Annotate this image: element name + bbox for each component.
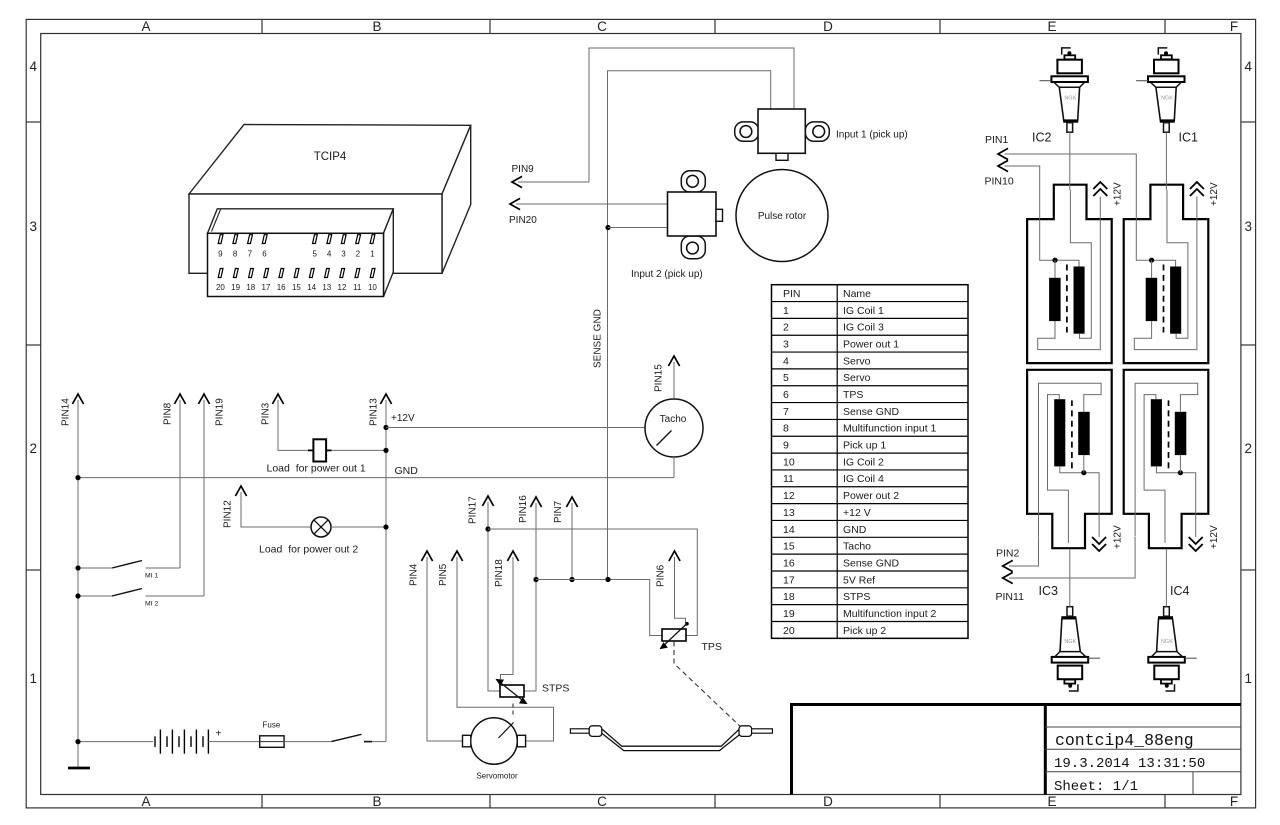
svg-text:7: 7 bbox=[783, 406, 789, 418]
node PIN17 bbox=[468, 496, 494, 524]
wire PIN14 to ground rail bbox=[77, 400, 79, 768]
svg-text:Pick up 1: Pick up 1 bbox=[843, 440, 886, 452]
svg-text:SENSE GND: SENSE GND bbox=[593, 309, 604, 368]
svg-text:Name: Name bbox=[843, 288, 871, 300]
svg-text:C: C bbox=[597, 19, 607, 34]
spark plug IC2 bbox=[1040, 48, 1088, 190]
node PIN9 bbox=[512, 164, 535, 188]
wire PIN7 down bbox=[571, 503, 573, 580]
wire tacho to GND rail bbox=[673, 457, 675, 478]
node junction MI1 left bbox=[75, 565, 80, 570]
ignition coil IC2 bbox=[1027, 185, 1112, 363]
svg-text:MI 1: MI 1 bbox=[145, 573, 158, 580]
svg-text:9: 9 bbox=[218, 250, 223, 259]
node PIN18 bbox=[494, 551, 519, 587]
svg-text:Load for power out 2: Load for power out 2 bbox=[259, 544, 358, 556]
power +12V feed IC4 bbox=[1189, 514, 1220, 551]
svg-text:Input 2 (pick up): Input 2 (pick up) bbox=[631, 269, 703, 280]
node PIN3 bbox=[261, 394, 284, 425]
power +12V feed IC1 bbox=[1190, 182, 1220, 206]
spark plug IC3 bbox=[1052, 549, 1100, 691]
svg-text:STPS: STPS bbox=[542, 683, 569, 695]
spark plug IC1 bbox=[1136, 48, 1184, 190]
wire PIN17 to STPS left bbox=[488, 502, 500, 691]
svg-text:C: C bbox=[597, 794, 607, 809]
potentiometer TPS bbox=[661, 622, 722, 653]
node PIN6 bbox=[656, 551, 681, 587]
svg-text:8: 8 bbox=[233, 250, 238, 259]
wire PIN10 to IC2 coil bbox=[1005, 166, 1040, 219]
svg-text:7: 7 bbox=[248, 250, 253, 259]
throttle linkage rod bbox=[570, 726, 772, 751]
svg-text:PIN11: PIN11 bbox=[996, 591, 1025, 603]
wire STPS linkage (dashed) bbox=[512, 704, 514, 718]
wire lamp to +12V rail bbox=[331, 526, 386, 528]
svg-text:PIN1: PIN1 bbox=[985, 134, 1009, 146]
svg-text:IC1: IC1 bbox=[1179, 131, 1199, 145]
ignition switch bbox=[331, 734, 372, 741]
svg-text:6: 6 bbox=[783, 389, 789, 401]
wire PIN9 to Input 1 bbox=[518, 181, 589, 183]
svg-text:+12 V: +12 V bbox=[843, 507, 871, 519]
svg-text:19: 19 bbox=[783, 608, 795, 620]
svg-text:PIN13: PIN13 bbox=[369, 398, 380, 426]
node junction battery at PIN14 rail bbox=[75, 739, 80, 744]
node PIN7 bbox=[553, 497, 578, 523]
svg-text:NGK: NGK bbox=[1161, 96, 1173, 102]
svg-text:+12V: +12V bbox=[1113, 525, 1124, 549]
svg-text:15: 15 bbox=[292, 283, 301, 292]
svg-text:IC4: IC4 bbox=[1170, 584, 1190, 598]
svg-text:19.3.2014 13:31:50: 19.3.2014 13:31:50 bbox=[1054, 756, 1205, 772]
svg-text:B: B bbox=[372, 794, 381, 809]
sensor Input 1 (pick up) bbox=[735, 109, 908, 160]
svg-text:NGK: NGK bbox=[1064, 639, 1076, 645]
svg-text:E: E bbox=[1047, 794, 1056, 809]
svg-text:1: 1 bbox=[783, 305, 789, 317]
svg-text:PIN6: PIN6 bbox=[656, 564, 667, 587]
svg-text:GND: GND bbox=[843, 524, 867, 536]
svg-text:19: 19 bbox=[231, 283, 240, 292]
svg-text:+12V: +12V bbox=[1113, 182, 1124, 206]
svg-text:17: 17 bbox=[783, 574, 795, 586]
svg-text:PIN5: PIN5 bbox=[438, 563, 449, 586]
svg-text:IG Coil 4: IG Coil 4 bbox=[843, 473, 884, 485]
svg-text:PIN8: PIN8 bbox=[163, 402, 174, 425]
svg-text:PIN18: PIN18 bbox=[494, 559, 505, 587]
svg-text:PIN3: PIN3 bbox=[261, 402, 272, 425]
svg-text:5: 5 bbox=[783, 372, 789, 384]
node PIN1 bbox=[985, 134, 1009, 160]
svg-text:Power out 2: Power out 2 bbox=[843, 490, 899, 502]
wire load 1 to +12V rail bbox=[332, 449, 386, 451]
svg-text:4: 4 bbox=[783, 355, 789, 367]
svg-text:3: 3 bbox=[783, 339, 789, 351]
wire PIN18 to STPS wiper bbox=[501, 557, 514, 679]
meter Tacho bbox=[645, 399, 703, 457]
svg-text:3: 3 bbox=[341, 250, 346, 259]
svg-text:3: 3 bbox=[30, 219, 38, 234]
svg-text:Servo: Servo bbox=[843, 355, 871, 367]
svg-text:A: A bbox=[141, 19, 150, 34]
lamp Load for power out 2 bbox=[259, 517, 358, 556]
node junction PIN7 bbox=[569, 577, 574, 582]
svg-text:PIN9: PIN9 bbox=[512, 164, 535, 175]
svg-text:15: 15 bbox=[783, 541, 795, 553]
svg-text:1: 1 bbox=[370, 250, 375, 259]
svg-text:D: D bbox=[823, 794, 833, 809]
wire sense bus to TPS left bbox=[536, 580, 662, 636]
power +12V feed IC3 bbox=[1092, 514, 1123, 551]
svg-text:2: 2 bbox=[356, 250, 361, 259]
node PIN20 bbox=[509, 198, 537, 226]
node junction SENSE GND end bbox=[605, 577, 610, 582]
svg-text:3: 3 bbox=[1244, 219, 1252, 234]
node junction load1 right bbox=[383, 448, 388, 453]
svg-text:10: 10 bbox=[783, 456, 795, 468]
svg-text:PIN14: PIN14 bbox=[61, 398, 72, 426]
svg-text:Pulse rotor: Pulse rotor bbox=[758, 211, 807, 222]
svg-text:IG Coil 1: IG Coil 1 bbox=[843, 305, 884, 317]
motor Servomotor bbox=[463, 718, 526, 781]
wire PIN2 to IC3 coil bbox=[1009, 537, 1039, 566]
svg-text:Multifunction input 2: Multifunction input 2 bbox=[843, 608, 937, 620]
svg-text:A: A bbox=[141, 794, 150, 809]
svg-text:PIN20: PIN20 bbox=[509, 215, 537, 226]
svg-text:NGK: NGK bbox=[1161, 639, 1173, 645]
sensor Input 2 (pick up) bbox=[631, 171, 723, 280]
wire fuse to ignition switch bbox=[284, 741, 331, 743]
node junction +12V tacho feed bbox=[383, 425, 388, 430]
svg-text:IG Coil 3: IG Coil 3 bbox=[843, 322, 884, 334]
svg-text:Load for power out 1: Load for power out 1 bbox=[267, 463, 366, 475]
title block bbox=[792, 705, 1241, 795]
svg-text:IG Coil 2: IG Coil 2 bbox=[843, 456, 884, 468]
svg-text:B: B bbox=[372, 19, 381, 34]
svg-text:PIN2: PIN2 bbox=[996, 548, 1020, 560]
wire PIN12 to lamp bbox=[241, 492, 311, 527]
svg-text:TPS: TPS bbox=[702, 641, 722, 653]
load resistor Load for power out 1 bbox=[267, 439, 366, 474]
node PIN5 bbox=[438, 551, 463, 586]
svg-text:PIN15: PIN15 bbox=[654, 364, 665, 392]
svg-text:PIN10: PIN10 bbox=[985, 176, 1014, 188]
wire PIN11 to IC4 coil bbox=[1009, 537, 1135, 578]
node PIN16 bbox=[518, 495, 542, 523]
node PIN4 bbox=[409, 551, 433, 586]
svg-text:+12V: +12V bbox=[1209, 182, 1220, 206]
node PIN14 bbox=[61, 394, 84, 426]
wire PIN19 to switch MI2 bbox=[203, 400, 205, 596]
svg-text:D: D bbox=[823, 19, 833, 34]
wire PIN17 junction to TPS right bbox=[488, 529, 697, 636]
svg-text:6: 6 bbox=[262, 250, 267, 259]
wire PIN3 to load 1 bbox=[278, 400, 308, 450]
svg-text:Input 1 (pick up): Input 1 (pick up) bbox=[836, 130, 908, 141]
svg-text:18: 18 bbox=[783, 591, 795, 603]
svg-text:PIN16: PIN16 bbox=[518, 495, 529, 523]
wire GND rail bbox=[78, 477, 674, 479]
svg-text:Tacho: Tacho bbox=[660, 414, 687, 425]
svg-text:TPS: TPS bbox=[843, 389, 863, 401]
svg-text:F: F bbox=[1230, 794, 1238, 809]
svg-text:17: 17 bbox=[262, 283, 271, 292]
svg-text:8: 8 bbox=[783, 423, 789, 435]
ground bbox=[68, 767, 90, 770]
svg-text:5V Ref: 5V Ref bbox=[843, 574, 875, 586]
wire switch to +12V rail bbox=[372, 741, 386, 743]
wire PIN20 to Input 2 bbox=[516, 203, 668, 205]
svg-text:PIN7: PIN7 bbox=[553, 500, 564, 523]
svg-text:5: 5 bbox=[312, 250, 317, 259]
svg-text:Fuse: Fuse bbox=[263, 721, 281, 730]
node junction MI2 left bbox=[75, 593, 80, 598]
svg-text:18: 18 bbox=[246, 283, 255, 292]
pin name table bbox=[772, 285, 969, 639]
svg-text:IC2: IC2 bbox=[1032, 131, 1052, 145]
svg-text:Sense GND: Sense GND bbox=[843, 557, 899, 569]
svg-text:PIN12: PIN12 bbox=[223, 500, 234, 528]
wire SENSE GND (Input 1 to junction) bbox=[608, 71, 771, 580]
svg-text:PIN: PIN bbox=[783, 288, 801, 300]
wire +12V rail (PIN13 vertical) bbox=[385, 400, 387, 742]
svg-text:Servomotor: Servomotor bbox=[476, 772, 518, 781]
battery bbox=[78, 729, 260, 754]
svg-text:1: 1 bbox=[30, 671, 38, 686]
wire TPS linkage (dashed) bbox=[674, 642, 744, 730]
wire junction to Input 2 bbox=[608, 227, 668, 229]
svg-text:MI 2: MI 2 bbox=[145, 601, 158, 608]
svg-text:20: 20 bbox=[216, 283, 225, 292]
svg-text:11: 11 bbox=[353, 283, 362, 292]
svg-text:12: 12 bbox=[338, 283, 347, 292]
node PIN19 bbox=[198, 394, 225, 426]
node PIN2 bbox=[996, 548, 1020, 572]
svg-text:14: 14 bbox=[783, 524, 795, 536]
node PIN13 bbox=[369, 394, 392, 426]
ignition coil IC4 bbox=[1124, 370, 1209, 548]
switch MI 2 bbox=[78, 589, 204, 608]
node PIN11 bbox=[996, 572, 1025, 603]
svg-text:Tacho: Tacho bbox=[843, 541, 871, 553]
svg-text:1: 1 bbox=[1244, 671, 1252, 686]
switch MI 1 bbox=[78, 561, 180, 580]
svg-text:9: 9 bbox=[783, 440, 789, 452]
svg-text:Pick up 2: Pick up 2 bbox=[843, 625, 886, 637]
svg-text:PIN19: PIN19 bbox=[215, 398, 226, 426]
svg-text:TCIP4: TCIP4 bbox=[314, 151, 347, 163]
svg-text:4: 4 bbox=[30, 59, 38, 74]
svg-text:+: + bbox=[216, 729, 222, 740]
svg-text:GND: GND bbox=[395, 465, 419, 477]
wire PIN1 to IC1 coil bbox=[1005, 154, 1137, 219]
svg-text:contcip4_88eng: contcip4_88eng bbox=[1055, 731, 1194, 750]
svg-text:11: 11 bbox=[783, 473, 794, 485]
ignition coil IC3 bbox=[1027, 370, 1112, 548]
svg-text:+12V: +12V bbox=[391, 413, 415, 424]
node junction lamp right bbox=[383, 524, 388, 529]
svg-text:2: 2 bbox=[783, 322, 789, 334]
svg-text:Multifunction input 1: Multifunction input 1 bbox=[843, 423, 937, 435]
wire PIN6 to TPS wiper bbox=[675, 557, 686, 623]
svg-text:STPS: STPS bbox=[843, 591, 870, 603]
ignition coil IC1 bbox=[1124, 185, 1209, 363]
svg-text:4: 4 bbox=[1244, 59, 1252, 74]
svg-text:PIN17: PIN17 bbox=[468, 496, 479, 524]
svg-text:16: 16 bbox=[277, 283, 286, 292]
svg-text:Sheet: 1/1: Sheet: 1/1 bbox=[1054, 779, 1138, 795]
svg-text:20: 20 bbox=[783, 625, 795, 637]
node junction Input 2 lower wire bbox=[605, 225, 610, 230]
node junction GND at PIN14 bbox=[75, 475, 80, 480]
node PIN8 bbox=[163, 394, 186, 425]
svg-text:2: 2 bbox=[30, 441, 38, 456]
svg-text:Power out 1: Power out 1 bbox=[843, 339, 899, 351]
TCIP4 connector pins row 2 (20..10) bbox=[216, 269, 377, 293]
wire PIN8 to switch MI1 bbox=[179, 400, 181, 568]
TCIP4 control module box bbox=[189, 125, 471, 297]
svg-text:2: 2 bbox=[1244, 441, 1252, 456]
svg-text:16: 16 bbox=[783, 557, 795, 569]
spark plug IC4 bbox=[1148, 549, 1196, 691]
svg-text:Servo: Servo bbox=[843, 372, 871, 384]
wire PIN5 to servomotor right bbox=[457, 557, 554, 741]
node PIN10 bbox=[985, 160, 1014, 187]
svg-text:NGK: NGK bbox=[1064, 96, 1076, 102]
node PIN15 bbox=[654, 356, 680, 392]
svg-text:13: 13 bbox=[322, 283, 331, 292]
svg-text:+12V: +12V bbox=[1209, 525, 1220, 549]
wire +12V to tacho bbox=[386, 427, 645, 429]
power +12V feed IC2 bbox=[1093, 182, 1123, 206]
wire PIN15 to tacho bbox=[673, 362, 675, 399]
pulse rotor disc bbox=[736, 170, 828, 262]
svg-text:13: 13 bbox=[783, 507, 795, 519]
node junction PIN16 bbox=[533, 577, 538, 582]
TCIP4 connector pins row 1 (9 8 7 6 / 5 4 3 2 1) bbox=[218, 235, 375, 259]
svg-text:Sense GND: Sense GND bbox=[843, 406, 899, 418]
node PIN12 bbox=[223, 486, 247, 528]
fuse bbox=[260, 721, 284, 748]
svg-text:F: F bbox=[1230, 19, 1238, 34]
svg-text:PIN4: PIN4 bbox=[409, 563, 420, 586]
potentiometer STPS bbox=[497, 680, 570, 704]
wire PIN16 to STPS right bbox=[524, 503, 536, 691]
svg-text:12: 12 bbox=[783, 490, 795, 502]
node junction PIN17 TPS feed bbox=[485, 526, 490, 531]
svg-text:IC3: IC3 bbox=[1039, 584, 1059, 598]
wire PIN4 to servomotor left bbox=[427, 557, 463, 741]
svg-text:4: 4 bbox=[327, 250, 332, 259]
svg-text:14: 14 bbox=[307, 283, 316, 292]
svg-text:E: E bbox=[1047, 19, 1056, 34]
svg-text:10: 10 bbox=[368, 283, 377, 292]
